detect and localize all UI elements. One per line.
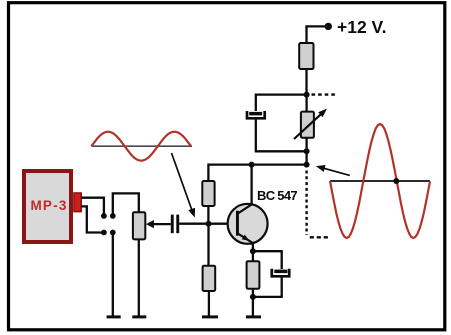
capacitor C2 (polarized, bar plate) [249,112,262,116]
wire R2 bottom to base node [207,206,209,224]
resistor R4 (emitter) [247,261,260,289]
wire collector rail [208,165,306,181]
MP-3 output connector [74,193,81,212]
capacitor C3 cup plate [272,269,289,277]
node C (collector rail) [304,162,310,168]
resistor R3 (base to ground) [203,266,216,291]
node B [304,148,310,154]
ground (jack) [107,315,121,318]
svg-text:MP-3: MP-3 [30,198,67,213]
wire VR bottom to node B [305,138,307,152]
node emitter bottom junction [250,294,256,300]
wire MP-3 ground lead [81,206,104,232]
wire emitter node to bypass cap C3 [253,251,282,269]
resistor R1 [299,43,313,69]
input sine wave axis [91,145,192,147]
capacitor C2 cup plate [247,111,265,118]
wire jack signal up and over to potentiometer top [113,193,139,216]
wire jack ground down [112,233,114,317]
wire R1 bottom to node A [305,69,307,95]
wire collector up to rail [250,165,252,205]
transistor Q1 BC547 body [228,204,268,244]
wire node A left and down to capacitor C2 [256,95,307,111]
wire +12V horizontal and down to R1 [307,26,329,43]
svg-text:+12 V.: +12 V. [337,17,386,37]
node base junction [206,221,212,227]
wire emitter down [252,243,254,251]
ground (potentiometer) [132,315,146,318]
transistor base bar [236,211,239,236]
potentiometer wiper arrow [146,220,154,228]
wire R4 to ground [252,289,254,316]
node jack signal [110,213,116,219]
node +12V terminal dot [325,23,332,30]
wire potentiometer bottom to ground [138,239,140,316]
output sine wave axis [330,180,430,182]
node emitter [250,248,256,254]
pointer arrow from input wave to base coupling [172,153,192,210]
node plug ground [101,230,107,236]
node output wave zero crossing dot [393,178,399,184]
transistor emitter stroke [238,234,253,244]
node A (top of parallel section) [304,92,310,98]
wire C3 bottom back to emitter bottom junction [253,277,282,297]
wire R3 to ground [208,291,210,316]
transistor collector stroke [238,204,252,213]
wire C2 bottom to node B [256,119,307,151]
transistor emitter arrowhead [242,235,250,241]
dashed output marker horizontal [310,236,329,238]
ground (emitter) [246,315,261,318]
pointer arrow from output wave to collector node [324,168,350,175]
wire emitter node to R4 [252,251,254,261]
wire MP-3 signal lead [81,198,104,216]
dashed marker right of node A [312,93,336,95]
resistor R2 (feedback bias) [202,181,214,206]
node plug signal [101,213,107,219]
potentiometer P1 [133,212,145,239]
node jack ground [110,230,116,236]
wire node A to VR top [305,95,307,112]
output sine wave [330,124,430,238]
wire node B to collector node C [305,151,307,164]
variable resistor VR1 [301,112,314,138]
dashed output marker vertical [305,171,307,236]
capacitor C1 plate left [171,215,174,234]
svg-text:BC 547: BC 547 [257,188,297,203]
VR1 adjustment arrow [294,114,322,139]
capacitor C1 plate right [176,215,179,234]
wire C1 to base node to transistor base [179,223,236,225]
wire base node to R3 [207,224,209,266]
node collector junction [249,162,255,168]
ground (base divider) [202,315,218,318]
MP-3 player box [24,171,71,242]
capacitor C3 bar plate [274,270,287,274]
input sine wave [91,132,191,161]
